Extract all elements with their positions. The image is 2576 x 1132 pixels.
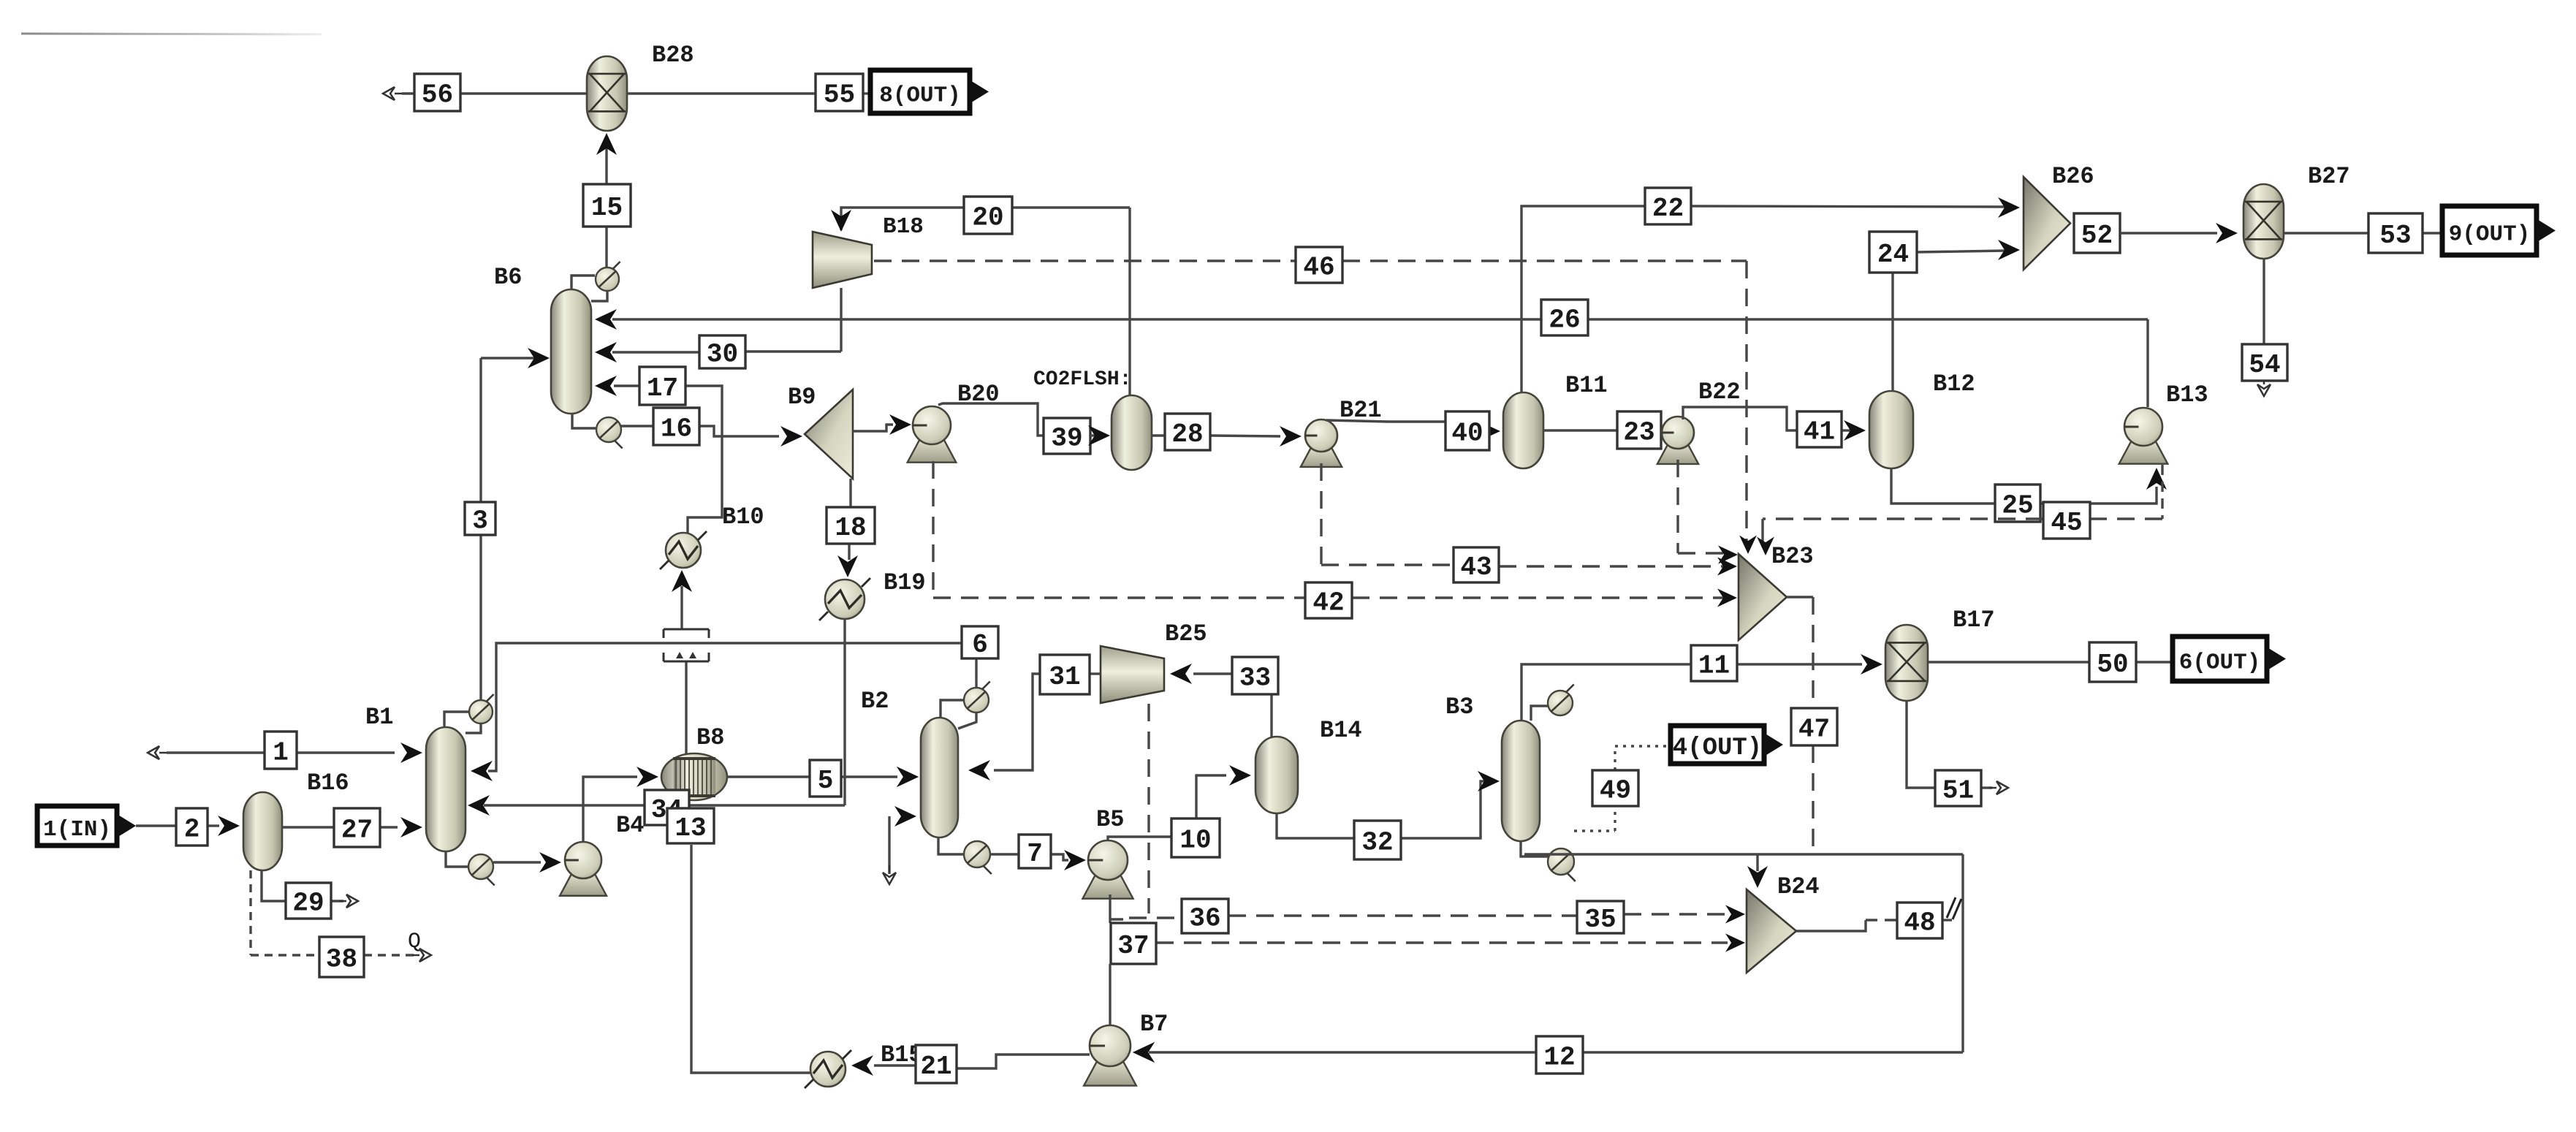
stream box 22: [1645, 188, 1691, 224]
label B14: [1320, 717, 1362, 744]
svg-text:25: 25: [2002, 491, 2033, 521]
vessel B28: [587, 56, 627, 131]
stream box 21: [916, 1045, 957, 1083]
svg-text:B14: B14: [1320, 717, 1362, 744]
wire B3 bottoms to B24: [1747, 854, 1768, 888]
svg-text:51: 51: [1942, 776, 1974, 806]
svg-text:B28: B28: [652, 42, 694, 69]
label Q with arrow: [408, 930, 431, 962]
stream box 24: [1869, 232, 1917, 273]
stream box 11: [1691, 645, 1737, 681]
vessel CO2FLSH: [1112, 395, 1152, 470]
wire stream 54: [2257, 259, 2271, 396]
label B15: [881, 1041, 923, 1068]
svg-text:47: 47: [1798, 715, 1830, 745]
svg-text:23: 23: [1623, 418, 1654, 448]
wire stream 48: [1796, 897, 1961, 931]
wire stream 3: [481, 348, 550, 699]
stream box 2: [176, 808, 208, 846]
svg-text:36: 36: [1189, 904, 1220, 934]
stream box 33: [1232, 657, 1278, 694]
wire stream 27: [282, 817, 422, 837]
label B2: [861, 688, 889, 715]
pump B4: [560, 842, 607, 896]
wire stream 21: [851, 1055, 1090, 1076]
stream box 56: [414, 74, 460, 111]
stream box 7: [1019, 835, 1051, 869]
label B8: [696, 724, 724, 751]
svg-text:56: 56: [422, 80, 453, 110]
wire stream 36 dashed: [1129, 905, 1745, 923]
column B1: [426, 727, 466, 851]
svg-text:B9: B9: [788, 384, 816, 411]
svg-text:27: 27: [341, 816, 373, 846]
wire stream 37 dashed: [1156, 933, 1745, 951]
svg-text:21: 21: [920, 1052, 951, 1082]
svg-text:8(OUT): 8(OUT): [879, 83, 961, 109]
vessel B17: [1885, 625, 1928, 701]
pump B22: [1657, 417, 1698, 464]
svg-text:53: 53: [2379, 221, 2411, 251]
label B23: [1771, 543, 1814, 570]
svg-text:B18: B18: [883, 214, 924, 240]
wire stream 38 dashed: [251, 870, 417, 955]
svg-text:B26: B26: [2052, 163, 2094, 190]
stream box 50: [2089, 642, 2136, 682]
wire B15 to 13: [691, 845, 810, 1073]
stream box 42: [1305, 582, 1352, 618]
wire stream 53: [2284, 232, 2442, 234]
label B19: [884, 569, 926, 596]
stream box 31: [1040, 655, 1090, 694]
svg-text:55: 55: [824, 80, 855, 110]
label B6: [494, 264, 522, 291]
wire stream 1: [148, 742, 422, 763]
wire stream 47 dashed: [1787, 597, 1813, 851]
stream box 48: [1897, 903, 1942, 938]
svg-text:B27: B27: [2308, 163, 2350, 190]
wire stream 33: [1170, 664, 1272, 737]
product box 6(OUT): [2173, 637, 2286, 681]
stream box 43: [1454, 547, 1499, 582]
svg-text:17: 17: [647, 373, 678, 403]
svg-text:B16: B16: [307, 770, 349, 797]
svg-text:26: 26: [1549, 305, 1580, 335]
stream box 28: [1165, 414, 1210, 450]
svg-text:15: 15: [591, 193, 623, 223]
svg-text:B25: B25: [1165, 620, 1207, 647]
wire stream 49 dotted: [1574, 746, 1671, 831]
label B13: [2166, 381, 2208, 409]
wire B2 lower feed: [883, 806, 916, 884]
vessel B16: [243, 792, 282, 870]
wire stream 12 arrow: [1133, 1042, 1155, 1063]
vessel B11: [1503, 392, 1543, 468]
stream box 46: [1296, 247, 1342, 283]
wire stream 52: [2120, 223, 2238, 243]
svg-text:32: 32: [1361, 828, 1393, 858]
svg-text:33: 33: [1239, 664, 1271, 694]
pump B21: [1301, 419, 1342, 467]
wire stream 41: [1683, 407, 1866, 441]
reboiler of B1: [446, 851, 495, 886]
svg-text:B17: B17: [1953, 607, 1995, 634]
svg-text:6: 6: [972, 630, 988, 660]
wire stream 25: [1891, 468, 2167, 504]
wire stream 12: [1133, 1042, 1963, 1063]
stream box 35: [1577, 901, 1624, 935]
stream box 51: [1935, 770, 1981, 806]
label B24: [1777, 873, 1820, 900]
reboiler of B6: [572, 414, 623, 449]
wire stream 20: [831, 208, 1130, 395]
stream box 3: [465, 502, 495, 536]
mixer B26: [2024, 177, 2070, 270]
stream box 45: [2043, 502, 2090, 539]
svg-text:52: 52: [2081, 221, 2113, 251]
wire 37 to B7: [1109, 964, 1111, 1025]
wire stream 55: [627, 92, 870, 94]
label B16: [307, 770, 349, 797]
svg-text:50: 50: [2097, 650, 2128, 680]
label B10: [722, 504, 764, 531]
wire stream 50: [1928, 661, 2173, 663]
stream box 25: [1995, 485, 2040, 522]
wire stream 56: [383, 87, 587, 100]
wire stream 10: [1108, 765, 1251, 840]
svg-text:3: 3: [472, 506, 488, 536]
mixer B24: [1747, 889, 1796, 973]
stream box 37: [1111, 923, 1156, 964]
svg-text:40: 40: [1451, 419, 1483, 449]
svg-text:B13: B13: [2166, 381, 2208, 409]
wire B3 bottoms: [1524, 854, 1963, 1052]
wire stream 34 B19 to B1: [468, 619, 845, 816]
svg-text:45: 45: [2051, 508, 2082, 538]
label B3: [1445, 694, 1473, 721]
svg-text:1(IN): 1(IN): [43, 817, 111, 843]
interchanger spacer icon: [664, 629, 709, 661]
wire stream 6: [471, 643, 976, 781]
svg-text:B23: B23: [1771, 543, 1814, 570]
svg-text:43: 43: [1460, 552, 1492, 582]
label B17: [1953, 607, 1995, 634]
wire B9 outlet: [853, 414, 911, 435]
condenser of B2: [941, 682, 990, 729]
wire stream 26 long: [595, 309, 2148, 407]
svg-text:B10: B10: [722, 504, 764, 531]
label B28: [652, 42, 694, 69]
svg-text:39: 39: [1051, 424, 1082, 454]
wire stream 28: [1152, 426, 1302, 447]
vessel B12: [1869, 391, 1913, 468]
svg-text:B12: B12: [1933, 371, 1975, 398]
wire B5 drain: [1110, 894, 1123, 923]
stream box 16: [653, 408, 699, 445]
wire stream 7: [991, 850, 1086, 870]
wire stream 31: [968, 674, 1101, 780]
svg-text:10: 10: [1179, 826, 1211, 856]
label B25: [1165, 620, 1207, 647]
wire 39 to CO2FLSH: [1088, 425, 1110, 446]
svg-text:9(OUT): 9(OUT): [2449, 222, 2531, 248]
stream box 36: [1182, 899, 1228, 934]
compressor B18: [813, 232, 872, 288]
condenser of B6: [571, 262, 620, 301]
svg-text:31: 31: [1049, 662, 1080, 692]
stream box 20: [964, 197, 1012, 234]
label B5: [1096, 806, 1124, 833]
wire stream 29: [262, 870, 358, 908]
svg-text:30: 30: [707, 340, 738, 370]
label B27: [2308, 163, 2350, 190]
stream box 12: [1536, 1036, 1583, 1074]
wire B25 work dashed: [1147, 704, 1150, 913]
wire B22 work dashed: [1678, 460, 1738, 564]
svg-text:18: 18: [835, 513, 866, 543]
svg-text:13: 13: [675, 813, 706, 843]
wire stream 46 dashed: [874, 261, 1757, 554]
stream box 54: [2242, 344, 2287, 381]
svg-text:6(OUT): 6(OUT): [2179, 650, 2261, 676]
svg-text:CO2FLSH:: CO2FLSH:: [1033, 368, 1131, 391]
stream box 29: [286, 883, 331, 919]
heater B19: [819, 578, 870, 620]
pump B7: [1084, 1025, 1136, 1086]
svg-text:29: 29: [292, 889, 324, 919]
stream box 23: [1617, 411, 1661, 449]
svg-text:4(OUT): 4(OUT): [1673, 734, 1762, 762]
wire B20 to 39: [938, 403, 1044, 436]
stream box 52: [2074, 213, 2120, 253]
stream box 41: [1797, 411, 1842, 447]
label B11: [1565, 372, 1608, 399]
wire stream 45 dashed: [1757, 465, 2162, 555]
stream box 6: [962, 626, 998, 660]
stream box 5: [810, 760, 841, 797]
label B20: [957, 381, 1000, 408]
wire stream 42 dashed: [933, 461, 1737, 607]
wire stream 43 dashed: [1321, 463, 1737, 576]
svg-text:35: 35: [1584, 905, 1616, 935]
stream box 34: [645, 790, 689, 825]
label B18: [883, 214, 924, 240]
pump B20: [908, 406, 957, 463]
mixer B23: [1739, 554, 1787, 640]
svg-text:1: 1: [273, 738, 289, 768]
label B4: [616, 812, 644, 839]
column B6: [551, 289, 591, 414]
svg-text:22: 22: [1652, 194, 1684, 224]
stream box 49: [1592, 770, 1638, 806]
label B12: [1933, 371, 1975, 398]
heater B10: [660, 531, 707, 569]
label B1: [365, 704, 393, 731]
wire stream 16: [621, 426, 802, 447]
svg-text:B1: B1: [365, 704, 393, 731]
svg-text:B19: B19: [884, 569, 926, 596]
svg-text:28: 28: [1171, 419, 1203, 449]
svg-text:Q: Q: [408, 930, 421, 954]
label B26: [2052, 163, 2094, 190]
stream box 1: [265, 732, 297, 769]
label B21: [1340, 397, 1382, 424]
wire stream 18: [837, 479, 858, 577]
wire stream 30: [595, 288, 841, 362]
stream box 10: [1171, 818, 1220, 857]
stream box 30: [699, 335, 745, 370]
svg-text:B4: B4: [616, 812, 644, 839]
heater B15: [805, 1050, 851, 1088]
svg-text:46: 46: [1303, 253, 1334, 283]
vessel B27: [2243, 184, 2284, 259]
stream box 53: [2368, 213, 2423, 253]
wire B8 to B10: [672, 570, 692, 754]
svg-text:11: 11: [1698, 651, 1730, 681]
svg-text:42: 42: [1312, 588, 1344, 618]
stream box 26: [1541, 300, 1588, 335]
compressor B25: [1101, 646, 1164, 703]
svg-text:37: 37: [1117, 931, 1149, 961]
stream box 15: [583, 184, 631, 227]
stream box 32: [1354, 821, 1401, 859]
wire B1 reboiler to B4: [493, 852, 561, 873]
svg-text:5: 5: [818, 766, 834, 796]
svg-text:38: 38: [326, 945, 357, 975]
svg-text:41: 41: [1804, 417, 1835, 447]
svg-text:B7: B7: [1140, 1011, 1168, 1038]
product box 8(OUT): [870, 70, 989, 113]
svg-text:B6: B6: [494, 264, 522, 291]
svg-text:B22: B22: [1698, 379, 1741, 406]
product box 9(OUT): [2442, 206, 2556, 255]
wire stream 5: [727, 767, 919, 787]
stream box 55: [816, 74, 863, 111]
wire stream 2: [136, 816, 240, 836]
svg-text:16: 16: [661, 414, 692, 444]
svg-text:7: 7: [1027, 839, 1043, 869]
stream box 40: [1445, 411, 1489, 450]
stream box 27: [334, 808, 380, 847]
feed box 1(IN): [37, 806, 136, 846]
label B22: [1698, 379, 1741, 406]
label B7: [1140, 1011, 1168, 1038]
wire stream 51: [1907, 701, 2008, 794]
wire stream 24: [1893, 240, 2020, 391]
svg-text:B3: B3: [1445, 694, 1473, 721]
decorative gray rule: [21, 34, 322, 34]
label B9: [788, 384, 816, 411]
svg-text:20: 20: [972, 203, 1003, 233]
column B3: [1502, 721, 1540, 841]
svg-text:B5: B5: [1096, 806, 1124, 833]
stream box 38: [319, 937, 364, 977]
svg-text:49: 49: [1600, 776, 1631, 806]
wire stream 23: [1543, 430, 1663, 433]
stream box 13: [667, 808, 714, 843]
reboiler of B2: [938, 837, 992, 874]
svg-text:B8: B8: [696, 724, 724, 751]
condenser of B1: [444, 694, 494, 733]
svg-text:54: 54: [2249, 350, 2280, 380]
wire stream 11: [1521, 654, 1882, 721]
column B2: [921, 718, 958, 837]
svg-text:12: 12: [1543, 1043, 1575, 1073]
wire stream 32: [1277, 771, 1500, 838]
stream box 17: [639, 367, 685, 405]
wire stream 40: [1326, 420, 1500, 441]
reboiler of B3: [1521, 841, 1576, 881]
svg-text:B2: B2: [861, 688, 889, 715]
pump B13: [2119, 408, 2168, 464]
stream box 39: [1044, 418, 1090, 454]
svg-text:B11: B11: [1565, 372, 1608, 399]
svg-text:2: 2: [184, 815, 200, 845]
svg-text:24: 24: [1877, 240, 1909, 270]
wire stream 15 into B28: [596, 133, 617, 267]
stream box 47: [1791, 708, 1837, 745]
condenser of B3: [1531, 685, 1574, 721]
wire B4 to B8: [583, 767, 658, 841]
vessel B14: [1255, 737, 1298, 813]
exchanger B8: [661, 753, 727, 800]
label CO2FLSH: [1033, 368, 1131, 391]
wire stream 22: [1521, 197, 2020, 392]
svg-text:B24: B24: [1777, 873, 1820, 900]
wire stream 17: [595, 376, 722, 533]
product box 4(OUT): [1671, 726, 1783, 764]
pump B5: [1082, 840, 1133, 899]
stream box 18: [827, 507, 875, 544]
expander B9: [805, 390, 853, 479]
svg-text:48: 48: [1904, 908, 1935, 938]
wire B2 feed 5 arrow: [897, 767, 919, 787]
